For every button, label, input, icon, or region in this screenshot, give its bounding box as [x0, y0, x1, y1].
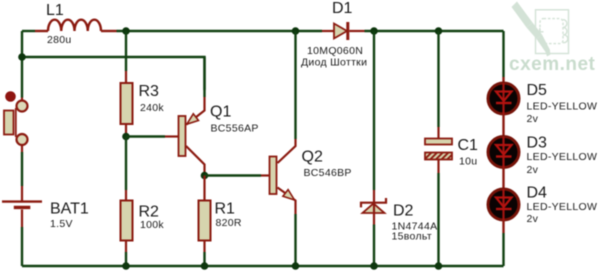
wire top-left horizontal to inductor [22, 30, 35, 32]
switch contact pin upper [21, 98, 23, 101]
wire R2 bottom [125, 252, 127, 266]
wire top rail right of D1 [365, 30, 504, 32]
switch plunger [4, 108, 16, 137]
junction D2 bottom [370, 262, 378, 270]
junction Q1 collector / R1 / Q2 base [201, 172, 209, 180]
wire LED column bottom [502, 220, 504, 266]
diode D1 [322, 22, 365, 40]
svg-text:D2: D2 [393, 203, 414, 220]
wire Q2 emitter down [294, 214, 296, 266]
svg-text:280u: 280u [47, 34, 72, 46]
wire D2 column top [373, 31, 375, 190]
svg-text:100k: 100k [140, 219, 164, 231]
wire bottom rail [22, 265, 504, 267]
svg-text:240k: 240k [140, 102, 164, 114]
svg-text:D1: D1 [332, 0, 353, 17]
junction R2 bottom [122, 262, 130, 270]
svg-text:D5: D5 [527, 82, 548, 99]
wire Q2 collector up [294, 31, 296, 139]
svg-text:15вольт: 15вольт [392, 231, 432, 243]
switch contact upper [17, 101, 28, 112]
svg-text:LED-YELLOW: LED-YELLOW [527, 151, 598, 163]
svg-text:2v: 2v [527, 164, 539, 176]
switch button actuator [5, 91, 16, 102]
svg-text:10MQ060N: 10MQ060N [307, 45, 363, 57]
svg-text:R2: R2 [139, 204, 160, 221]
wire R3 column top [125, 31, 127, 71]
junction Q2 emitter bottom [292, 262, 300, 270]
svg-text:LED-YELLOW: LED-YELLOW [527, 201, 598, 213]
junction C1 top [435, 27, 443, 35]
svg-text:2v: 2v [527, 113, 539, 125]
svg-text:Диод Шоттки: Диод Шоттки [301, 57, 367, 69]
zener diode D2 [361, 190, 386, 225]
wire left vertical mid [21, 152, 23, 186]
svg-text:cxem.net: cxem.net [509, 54, 596, 75]
junction left rail y57 [18, 53, 26, 61]
wire C1 bottom [437, 173, 439, 266]
transistor Q1 [165, 97, 205, 176]
junction at inductor output [122, 27, 130, 35]
svg-text:C1: C1 [458, 137, 479, 154]
wire left vertical lower [21, 227, 23, 266]
svg-text:L1: L1 [46, 2, 64, 19]
inductor L1 [35, 20, 117, 31]
switch contact pin lower [21, 145, 23, 152]
svg-text:BC546BP: BC546BP [304, 167, 352, 179]
svg-text:10u: 10u [459, 156, 477, 168]
wire LED D5-D3 [502, 114, 504, 137]
LED D4 [488, 189, 519, 220]
junction Q2 collector top [292, 27, 300, 35]
svg-text:820R: 820R [216, 217, 242, 229]
svg-text:LED-YELLOW: LED-YELLOW [527, 101, 598, 113]
wire Q2 base [205, 174, 262, 176]
svg-text:BAT1: BAT1 [50, 201, 89, 218]
LED D3 [488, 137, 519, 168]
wire Q1 emitter up [203, 57, 205, 97]
svg-text:2v: 2v [527, 213, 539, 225]
capacitor C1 [425, 127, 452, 173]
wire base Q1 [126, 135, 165, 137]
watermark logo cxem.net [536, 10, 569, 54]
svg-text:Q1: Q1 [210, 104, 231, 121]
wire top rail left of D1 [117, 30, 323, 32]
junction D2 top [370, 27, 378, 35]
resistor R3 [121, 71, 133, 137]
svg-text:Q2: Q2 [302, 149, 323, 166]
wire R2 column [125, 137, 127, 191]
svg-text:D3: D3 [527, 135, 548, 152]
svg-text:D4: D4 [527, 185, 548, 202]
transistor Q2 [261, 139, 296, 214]
wire D2 bottom [373, 225, 375, 267]
LED D5 [488, 77, 519, 114]
junction R1 bottom [201, 262, 209, 270]
wire LED D3-D4 [502, 168, 504, 190]
resistor R1 [199, 176, 211, 253]
switch contact lower [17, 134, 28, 145]
junction R3/R2/base [122, 133, 130, 141]
wire LED column top [502, 31, 504, 77]
wire second rail y57 [22, 57, 205, 90]
svg-text:1.5V: 1.5V [50, 218, 73, 230]
wire R1 bottom [203, 252, 205, 266]
svg-text:BC556AP: BC556AP [211, 123, 259, 135]
junction C1 bottom [435, 262, 443, 270]
wire C1 column top [437, 31, 439, 127]
resistor R2 [121, 190, 133, 252]
wire left vertical upper [21, 31, 23, 98]
svg-text:R1: R1 [215, 201, 236, 218]
svg-text:R3: R3 [139, 83, 160, 100]
battery BAT1 [2, 186, 42, 227]
